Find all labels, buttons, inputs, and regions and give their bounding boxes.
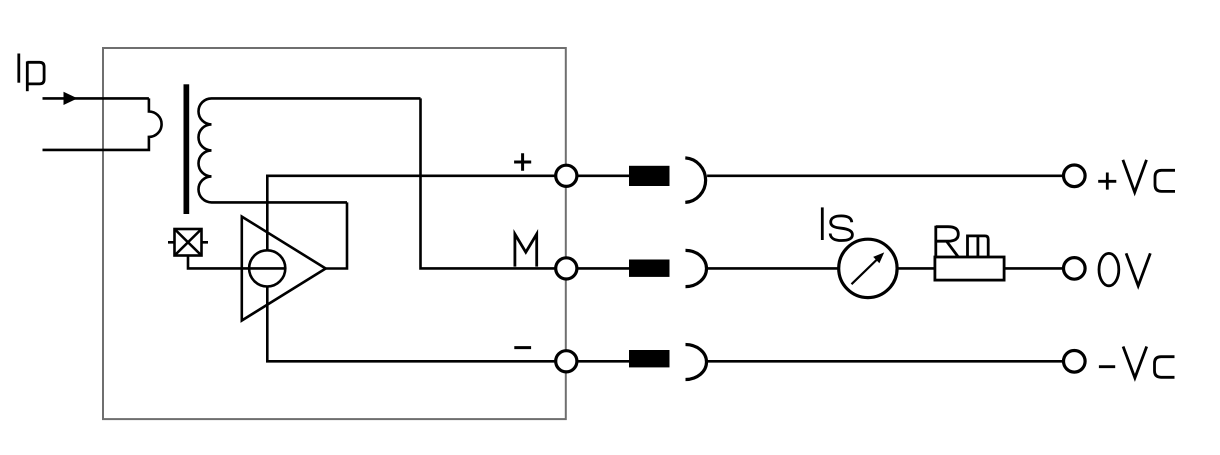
- wire Rm to 0V: [1004, 267, 1063, 270]
- resistor Rm: [935, 257, 1004, 280]
- wire ammeter to Rm: [897, 267, 935, 270]
- pin +: [629, 166, 670, 186]
- arrowhead Ip: [64, 92, 78, 105]
- Hall element: [168, 229, 208, 256]
- wire - to -Vc: [707, 360, 1064, 363]
- wire terminal - to pin: [577, 360, 629, 363]
- current source symbol: [249, 250, 285, 286]
- label -Vc: [1099, 347, 1175, 378]
- terminal -: [556, 351, 577, 372]
- ammeter needle: [852, 259, 879, 285]
- wire terminal M to pin: [577, 267, 629, 270]
- wire Hall to amplifier input: [188, 256, 285, 269]
- secondary winding: [199, 98, 421, 202]
- terminal +Vc: [1064, 165, 1086, 187]
- magnetic core: [184, 84, 190, 214]
- label Ip: [19, 54, 44, 92]
- wire primary input with arrow: [43, 97, 149, 100]
- op-amp triangle: [242, 217, 326, 321]
- terminal -Vc: [1064, 351, 1086, 373]
- wire + to +Vc: [707, 175, 1063, 178]
- terminal +: [556, 165, 577, 186]
- pin -: [629, 350, 670, 367]
- label +Vc: [1098, 160, 1175, 192]
- ammeter Is: [839, 239, 897, 297]
- label -: [514, 346, 531, 349]
- label Rm: [936, 226, 988, 257]
- ammeter needle arrowhead: [873, 252, 884, 263]
- wire M to ammeter: [707, 267, 839, 270]
- wire terminal + to pin: [577, 175, 629, 178]
- terminal 0V: [1064, 258, 1086, 280]
- wire - supply rail: [267, 287, 556, 362]
- wire secondary top to terminal M: [421, 98, 557, 268]
- socket M: [686, 250, 707, 286]
- pin M: [629, 260, 670, 277]
- wire secondary bottom to amplifier output: [326, 202, 347, 268]
- primary winding: [43, 98, 162, 149]
- socket +: [685, 158, 705, 203]
- socket -: [686, 345, 707, 380]
- wire + supply rail: [267, 176, 556, 251]
- transducer outline box: [103, 48, 566, 419]
- label 0V: [1099, 253, 1150, 286]
- label +: [514, 153, 531, 171]
- label M: [515, 234, 537, 267]
- terminal M: [556, 258, 577, 279]
- label Is: [822, 207, 852, 240]
